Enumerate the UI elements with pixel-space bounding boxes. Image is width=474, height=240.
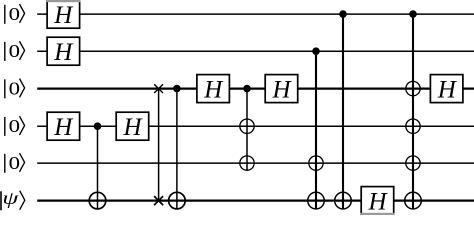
wire q4 — [37, 125, 474, 127]
svg-text:0: 0 — [9, 153, 20, 173]
H gate q3 col13 — [430, 75, 463, 104]
control dot c9 q2 — [312, 47, 320, 55]
wire q5 — [37, 162, 474, 164]
target c7 q4 — [240, 119, 254, 133]
target c5 q6 — [169, 192, 186, 209]
wire q3 (bold) — [37, 87, 474, 89]
swap cross c4 q3 — [154, 84, 163, 93]
label ket0 q5 — [5, 153, 25, 173]
svg-text:H: H — [53, 39, 74, 66]
svg-text:H: H — [53, 2, 74, 29]
target c10 q6 — [335, 192, 352, 209]
svg-text:H: H — [123, 114, 144, 141]
target c9 q5 — [309, 156, 323, 170]
target c2 q6 — [89, 192, 106, 209]
svg-text:H: H — [368, 189, 389, 215]
target c12 q4 — [406, 119, 420, 133]
H gate q3 col6 — [197, 75, 230, 104]
vertical cnot c12 (q1 to q6) — [412, 14, 414, 209]
vertical cnot c7 (q3 to q5) — [246, 89, 248, 171]
H gate q2 col1 — [47, 37, 80, 66]
target c7 q5 — [240, 156, 254, 170]
wire q1 — [37, 13, 474, 15]
label ket0 q1 — [5, 4, 25, 24]
H gate q6 col11 — [360, 187, 394, 216]
target c9 q6 — [308, 192, 325, 209]
target c12 q6 — [405, 192, 422, 209]
label ket0 q3 — [5, 78, 25, 98]
svg-text:ψ: ψ — [2, 188, 19, 208]
vertical cnot c10 (q1 to q6) — [342, 14, 344, 209]
label ketpsi q6 — [1, 188, 25, 210]
H gate q4 col1 — [47, 112, 80, 141]
svg-text:0: 0 — [9, 116, 20, 136]
H gate q4 col3 — [116, 112, 149, 141]
svg-text:0: 0 — [9, 41, 20, 61]
control dot c7 q3 — [243, 85, 251, 93]
wire q2 — [37, 50, 474, 52]
wire q6 (bold) — [37, 200, 474, 202]
control dot c5 q3 — [173, 85, 181, 93]
control dot c2 q4 — [94, 122, 102, 130]
swap cross c4 q6 — [154, 196, 163, 205]
vertical cnot c2 (q4 to q6) — [97, 126, 99, 209]
target c12 q5 — [406, 156, 420, 170]
vertical cnot c5 (q3 to q6) — [176, 89, 178, 209]
svg-text:0: 0 — [9, 78, 20, 98]
H gate q3 col8 — [265, 75, 298, 104]
svg-text:H: H — [53, 114, 74, 141]
label ket0 q2 — [5, 41, 25, 61]
target c12 q3 — [406, 81, 420, 95]
svg-text:H: H — [437, 77, 458, 104]
svg-text:0: 0 — [9, 4, 20, 24]
H gate q1 col1 — [46, 0, 80, 29]
label ket0 q4 — [5, 116, 25, 136]
vertical cnot c9 (q2 to q6) — [315, 51, 317, 209]
vertical swap c4 (q3 to q6) — [158, 89, 160, 201]
control dot c12 q1 — [409, 10, 417, 18]
svg-text:H: H — [203, 77, 224, 104]
svg-text:H: H — [272, 77, 293, 104]
control dot c10 q1 — [339, 10, 347, 18]
